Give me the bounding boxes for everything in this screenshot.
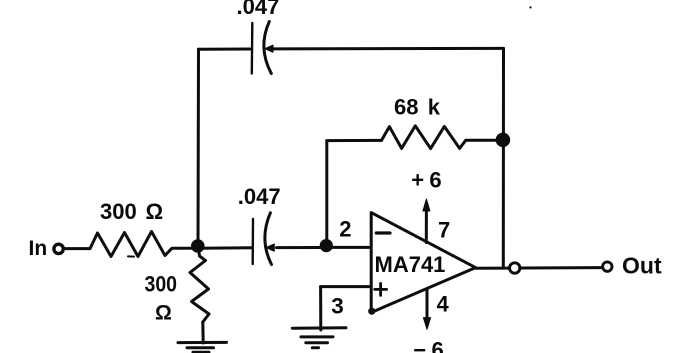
wire pin3 vertical [319, 287, 322, 330]
node op-amp plus corner blob [368, 308, 375, 315]
svg-text:7: 7 [438, 218, 450, 243]
capacitor .047 bottom arrowhead [266, 244, 274, 251]
wire top-left horizontal [199, 48, 252, 51]
op-amp minus input symbol [376, 231, 390, 234]
svg-text:.047: .047 [238, 184, 281, 209]
svg-text:6: 6 [432, 338, 444, 353]
node input junction dot [191, 239, 205, 253]
terminal circle op-amp output [510, 263, 520, 273]
resistor 68 k zigzag [382, 126, 498, 149]
capacitor .047 top curved plate [264, 22, 271, 74]
node 68k output junction dot [496, 133, 511, 148]
svg-text:4: 4 [437, 292, 450, 317]
svg-text:MA741: MA741 [375, 252, 446, 277]
capacitor .047 top left plate [251, 23, 254, 74]
svg-text:68: 68 [394, 95, 418, 120]
op-amp plus input symbol [375, 283, 387, 295]
op-amp triangle MA741 [371, 213, 475, 313]
svg-text:In: In [29, 237, 48, 260]
wire pin2 into op-amp [331, 246, 371, 249]
svg-text:300: 300 [145, 272, 178, 297]
stray mark top right [529, 6, 531, 8]
arrow -6 supply down [426, 289, 429, 321]
ground symbol left [178, 341, 227, 344]
svg-text:Out: Out [622, 253, 662, 279]
ground symbol pin3 [292, 326, 346, 329]
wire input [65, 247, 91, 250]
arrow +6 supply up [425, 207, 428, 243]
wire cap to pin2 node [277, 246, 321, 249]
svg-text:−: − [413, 338, 426, 353]
wire right vertical feedback [502, 48, 505, 268]
capacitor .047 top arrowhead [265, 45, 273, 52]
capacitor .047 bottom left plate [251, 219, 254, 264]
svg-text:.047: .047 [237, 0, 280, 19]
wire 68k left horizontal [327, 139, 382, 142]
svg-text:k: k [428, 95, 441, 120]
svg-text:3: 3 [331, 294, 344, 319]
wire pin2 node up to 68k [325, 141, 328, 242]
wire op-amp output [476, 267, 509, 270]
svg-text:Ω: Ω [155, 301, 172, 324]
terminal circle In [54, 244, 63, 253]
wire to out terminal [521, 266, 601, 269]
wire shunt resistor to ground [201, 322, 204, 343]
node pin2 junction dot [320, 239, 333, 252]
svg-text:2: 2 [339, 217, 351, 242]
wire top-right horizontal [273, 47, 504, 51]
wire left vertical [197, 49, 201, 248]
terminal circle Out [603, 262, 612, 271]
svg-text:Ω: Ω [146, 199, 164, 224]
resistor 300 ohm series zigzag [90, 232, 191, 257]
svg-text:6: 6 [429, 168, 441, 193]
wire junction to cap [198, 246, 253, 250]
svg-text:300: 300 [100, 199, 137, 224]
wire pin3 horizontal [321, 285, 371, 288]
capacitor .047 bottom curved plate [265, 213, 272, 265]
svg-text:+: + [411, 168, 424, 193]
stray mark below resistor [128, 255, 134, 257]
resistor 300 ohm shunt vertical zigzag [190, 251, 209, 322]
